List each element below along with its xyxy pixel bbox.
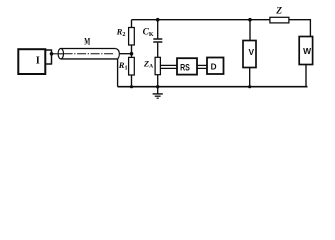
impedance Z (270, 17, 289, 23)
wire R2 top to top bus (131, 20, 133, 28)
capacitor CK bottom plate (153, 41, 162, 43)
wire bottom bus (118, 86, 308, 88)
node V bottom junction (248, 85, 251, 88)
svg-text:RS: RS (180, 63, 190, 73)
wire line M center to divider node (119, 53, 131, 55)
receiver box RS (177, 58, 197, 74)
antenna impedance ZA (155, 57, 160, 74)
svg-text:Z: Z (275, 6, 282, 17)
measuring line M top edge (61, 48, 116, 50)
wire shield down to bottom bus (117, 59, 119, 87)
wire pair RS to D lower (197, 67, 207, 69)
node CK top junction (156, 18, 160, 22)
wattmeter box W (299, 37, 312, 65)
measuring line M right cap (115, 49, 119, 54)
wire generator vertical link (51, 49, 53, 64)
wire top bus (132, 19, 271, 21)
svg-text:M: M (84, 37, 90, 47)
resistor R1 (129, 57, 135, 75)
node divider junction (130, 52, 134, 56)
indicator box D (207, 58, 224, 75)
ground bar 1 (153, 93, 163, 95)
svg-text:D: D (211, 63, 217, 72)
wire ZA bottom to bus (157, 75, 159, 87)
ground bar 2 (155, 95, 161, 97)
voltmeter box V (243, 41, 256, 68)
node generator output junction (50, 52, 54, 56)
generator box I (18, 49, 45, 74)
wire generator top stub (46, 49, 52, 51)
wire R1 bottom to bottom bus (131, 75, 133, 87)
capacitor CK top plate (153, 38, 162, 40)
ground bar 3 (157, 97, 159, 99)
ground stem (157, 87, 159, 94)
wire pair RS to D upper (197, 64, 207, 66)
measuring line M left end cap (58, 49, 63, 59)
measuring line M right cap lower (118, 54, 120, 59)
measuring line M bottom edge (61, 58, 118, 60)
svg-text:I: I (36, 56, 40, 67)
wire to line M (52, 53, 64, 55)
wire top bus to CK (157, 20, 159, 39)
wire Z to W corner (289, 20, 311, 37)
wire top bus to V (249, 20, 251, 41)
wire R2 bottom to node (131, 45, 133, 54)
wire generator bottom stub (46, 63, 52, 65)
wire W bottom to bus (305, 65, 307, 87)
wire pair ZA to RS lower (160, 67, 177, 69)
wire node to R1 top (131, 54, 133, 58)
svg-text:V: V (249, 47, 255, 57)
wire V bottom to bus (249, 68, 251, 87)
wire CK to ZA (157, 43, 159, 58)
svg-text:W: W (303, 46, 312, 56)
measuring line M axis (dash-dot) (64, 53, 115, 55)
node ZA bottom junction (156, 85, 159, 88)
node V top junction (248, 18, 252, 22)
resistor R2 (129, 28, 135, 46)
node R1 bottom junction (130, 85, 133, 88)
wire pair ZA to RS upper (160, 64, 177, 66)
